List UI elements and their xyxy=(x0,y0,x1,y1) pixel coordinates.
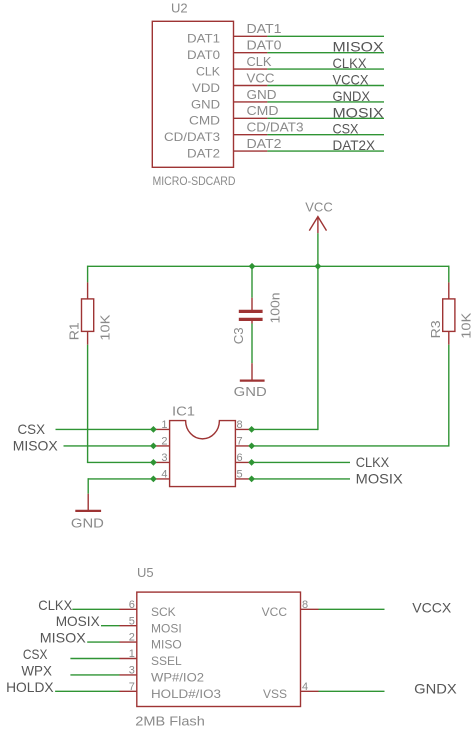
svg-text:2: 2 xyxy=(161,435,167,447)
wire MISOX to IC1 pin 2 xyxy=(64,445,154,447)
IC1 right pin 5 stub xyxy=(235,478,251,480)
op-amp IC1 body with notch xyxy=(170,421,236,487)
U5 pin 8 stub xyxy=(301,608,319,610)
wire net CMD row 6 xyxy=(267,117,384,119)
svg-text:2MB Flash: 2MB Flash xyxy=(135,714,205,729)
IC1 right pin 8 junction dot xyxy=(248,426,255,433)
svg-text:CLK: CLK xyxy=(247,54,272,69)
resistor R3 body xyxy=(443,299,455,332)
wire net DAT1 row 1 xyxy=(267,35,384,37)
svg-text:WPX: WPX xyxy=(21,662,52,678)
IC1 left pin 4 junction dot xyxy=(150,476,157,483)
svg-text:WP#/IO2: WP#/IO2 xyxy=(151,671,204,685)
svg-text:8: 8 xyxy=(237,419,243,431)
IC1 left pin 3 junction dot xyxy=(150,459,157,466)
wire R3 down to IC1 pin 7 xyxy=(448,345,450,446)
svg-text:10K: 10K xyxy=(459,312,474,338)
IC1 left pin 2 junction dot xyxy=(150,443,157,450)
capacitor C3 top lead xyxy=(251,298,253,311)
IC1 left pin 4 stub xyxy=(153,478,169,480)
IC1 left pin 1 junction dot xyxy=(150,426,157,433)
wire CLKX to U5 xyxy=(72,608,119,610)
resistor R3 top lead xyxy=(448,282,450,299)
junction at C3 top xyxy=(249,263,256,270)
resistor R1 body xyxy=(82,299,94,332)
svg-text:CSX: CSX xyxy=(18,421,46,437)
wire U5 pin 4 to GNDX xyxy=(319,690,385,692)
capacitor C3 bottom plate xyxy=(239,318,263,321)
svg-text:SSEL: SSEL xyxy=(151,654,182,668)
svg-text:SCK: SCK xyxy=(151,605,176,619)
svg-text:VCCX: VCCX xyxy=(333,72,370,88)
wire bus down to R1 xyxy=(87,266,89,283)
wire net DAT2 row 8 xyxy=(267,150,384,152)
U2 pin DAT1 stub xyxy=(234,35,268,37)
svg-text:MISOX: MISOX xyxy=(13,437,59,453)
svg-text:CD/DAT3: CD/DAT3 xyxy=(247,120,304,135)
svg-text:MISO: MISO xyxy=(151,638,182,652)
svg-text:8: 8 xyxy=(302,599,308,611)
svg-text:MOSIX: MOSIX xyxy=(56,613,101,629)
svg-text:CSX: CSX xyxy=(23,646,48,662)
U2 pin CD/DAT3 stub xyxy=(234,134,268,136)
svg-text:HOLDX: HOLDX xyxy=(6,679,54,695)
svg-text:CLKX: CLKX xyxy=(38,597,73,613)
wire CSX to IC1 pin 1 xyxy=(56,428,154,430)
svg-text:5: 5 xyxy=(237,468,243,480)
U5 pin 5 (MOSI) stub xyxy=(120,625,137,627)
resistor R1 bottom lead xyxy=(87,331,89,344)
flash U5 body xyxy=(137,592,301,706)
wire IC1 pin 6 to CLKX xyxy=(252,461,350,463)
svg-text:7: 7 xyxy=(237,435,243,447)
svg-text:DAT1: DAT1 xyxy=(247,21,282,36)
U5 pin 3 (WP#/IO2) stub xyxy=(120,674,137,676)
U5 pin 7 (HOLD#/IO3) stub xyxy=(120,690,137,692)
svg-text:CSX: CSX xyxy=(333,121,360,137)
U5 pin 6 (SCK) stub xyxy=(120,608,137,610)
svg-text:GNDX: GNDX xyxy=(333,88,371,104)
IC1 right pin 6 junction dot xyxy=(248,459,255,466)
svg-text:5: 5 xyxy=(129,615,135,627)
svg-text:VSS: VSS xyxy=(263,687,287,701)
supply symbol VCC arrow xyxy=(309,217,326,234)
wire IC1 pin 8 up to bus xyxy=(252,428,318,430)
wire bus down to C3 xyxy=(251,266,253,297)
resistor R1 top lead xyxy=(87,282,89,299)
svg-text:CLKX: CLKX xyxy=(333,55,368,71)
svg-text:1: 1 xyxy=(129,648,135,660)
svg-text:C3: C3 xyxy=(231,327,246,344)
svg-text:VCC: VCC xyxy=(247,70,275,85)
svg-text:MICRO-SDCARD: MICRO-SDCARD xyxy=(153,174,236,188)
wire IC1 pin 5 to MOSIX xyxy=(252,478,350,480)
svg-text:CMD: CMD xyxy=(247,103,279,118)
svg-text:DAT2X: DAT2X xyxy=(333,137,376,153)
wire CSX to U5 xyxy=(70,658,119,660)
wire bus down to R3 xyxy=(448,266,450,283)
svg-text:CMD: CMD xyxy=(189,114,220,128)
junction at VCC stem xyxy=(315,263,322,270)
IC1 right pin 7 stub xyxy=(235,445,251,447)
svg-text:3: 3 xyxy=(129,665,135,677)
svg-text:GND: GND xyxy=(234,384,267,399)
wire C3 to GND xyxy=(251,324,253,364)
svg-text:GNDX: GNDX xyxy=(414,680,457,696)
svg-text:R3: R3 xyxy=(428,320,443,338)
wire U5 pin 8 to VCCX xyxy=(319,608,385,610)
svg-text:GND: GND xyxy=(71,516,104,531)
svg-text:VCC: VCC xyxy=(305,200,332,215)
wire net VCC row 4 xyxy=(267,85,384,87)
svg-text:4: 4 xyxy=(161,468,167,480)
U5 pin 4 stub xyxy=(301,690,319,692)
svg-text:DAT0: DAT0 xyxy=(187,48,220,62)
svg-text:MOSI: MOSI xyxy=(151,621,182,635)
U5 pin 1 (SSEL) stub xyxy=(120,658,137,660)
wire net DAT0 row 2 xyxy=(267,52,384,54)
U2 pin DAT0 stub xyxy=(234,52,268,54)
svg-text:100n: 100n xyxy=(268,293,283,324)
svg-text:GND: GND xyxy=(191,97,220,111)
svg-text:VCC: VCC xyxy=(262,605,288,619)
svg-text:R1: R1 xyxy=(67,322,82,340)
IC1 left pin 2 stub xyxy=(153,445,169,447)
IC1 left pin 1 stub xyxy=(153,428,169,430)
svg-text:U5: U5 xyxy=(137,565,154,580)
IC1 right pin 7 junction dot xyxy=(248,443,255,450)
capacitor C3 bottom lead xyxy=(251,321,253,324)
svg-text:MISOX: MISOX xyxy=(40,630,87,646)
svg-text:VDD: VDD xyxy=(192,81,220,95)
svg-text:VCCX: VCCX xyxy=(412,599,452,615)
IC1 right pin 8 stub xyxy=(235,428,251,430)
svg-text:1: 1 xyxy=(161,419,167,431)
ground symbol below C3 xyxy=(251,363,253,380)
ground symbol below IC1 pin 4 xyxy=(87,494,89,511)
U2 pin CLK stub xyxy=(234,68,268,70)
svg-text:IC1: IC1 xyxy=(172,404,195,419)
svg-text:DAT2: DAT2 xyxy=(187,147,220,161)
svg-text:3: 3 xyxy=(161,452,167,464)
wire MOSIX to U5 xyxy=(101,625,120,627)
svg-text:2: 2 xyxy=(129,632,135,644)
svg-text:MOSIX: MOSIX xyxy=(356,471,404,487)
svg-text:U2: U2 xyxy=(171,1,188,16)
IC1 left pin 3 stub xyxy=(153,461,169,463)
wire net CD/DAT3 row 7 xyxy=(267,134,384,136)
U5 pin 2 (MISO) stub xyxy=(120,641,137,643)
resistor R3 bottom lead xyxy=(448,331,450,344)
svg-text:MOSIX: MOSIX xyxy=(333,104,385,120)
wire MISOX to U5 xyxy=(87,641,119,643)
wire WPX to U5 xyxy=(70,674,119,676)
svg-text:6: 6 xyxy=(237,452,243,464)
connector U2 MICRO-SDCARD box xyxy=(152,21,233,167)
capacitor C3 top plate xyxy=(239,310,263,313)
svg-text:GND: GND xyxy=(247,87,277,102)
svg-text:6: 6 xyxy=(129,599,135,611)
IC1 right pin 5 junction dot xyxy=(248,476,255,483)
svg-text:HOLD#/IO3: HOLD#/IO3 xyxy=(151,687,221,701)
wire net CLK row 3 xyxy=(267,68,384,70)
svg-text:4: 4 xyxy=(302,681,308,693)
U2 pin DAT2 stub xyxy=(234,150,268,152)
U2 pin CMD stub xyxy=(234,117,268,119)
wire net GND row 5 xyxy=(267,101,384,103)
svg-text:CLK: CLK xyxy=(196,65,220,79)
svg-text:DAT2: DAT2 xyxy=(247,136,282,151)
wire HOLDX to U5 xyxy=(55,690,119,692)
svg-text:7: 7 xyxy=(129,681,135,693)
svg-text:MISOX: MISOX xyxy=(333,39,385,55)
U2 pin GND stub xyxy=(234,101,268,103)
svg-text:DAT1: DAT1 xyxy=(187,32,220,46)
wire IC1 pin 4 to ground xyxy=(88,478,153,480)
wire R1 down to IC1 pin 3 xyxy=(87,345,89,463)
svg-text:DAT0: DAT0 xyxy=(247,38,282,53)
wire VCC stem to bus xyxy=(317,233,319,266)
U2 pin VDD stub xyxy=(234,85,268,87)
wire horizontal VCC bus xyxy=(88,265,449,267)
IC1 right pin 6 stub xyxy=(235,461,251,463)
svg-text:10K: 10K xyxy=(97,314,112,340)
svg-text:CD/DAT3: CD/DAT3 xyxy=(164,130,220,144)
svg-text:CLKX: CLKX xyxy=(356,454,390,470)
